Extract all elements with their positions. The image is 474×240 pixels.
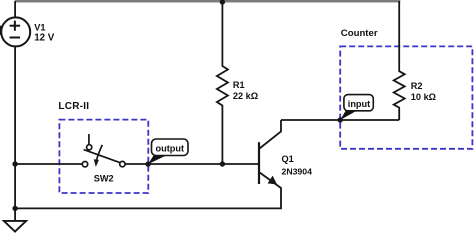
svg-text:input: input [348,99,370,109]
svg-text:10 kΩ: 10 kΩ [411,92,436,102]
svg-text:output: output [156,143,185,153]
svg-text:R1: R1 [233,80,245,90]
svg-text:SW2: SW2 [94,174,114,184]
svg-text:12 V: 12 V [34,33,55,44]
svg-text:Q1: Q1 [282,154,294,164]
svg-text:2N3904: 2N3904 [282,167,313,177]
svg-text:LCR-II: LCR-II [58,101,89,112]
svg-text:R2: R2 [411,81,423,91]
svg-text:22 kΩ: 22 kΩ [233,91,258,101]
svg-text:V1: V1 [34,23,45,33]
svg-text:Counter: Counter [341,28,378,39]
